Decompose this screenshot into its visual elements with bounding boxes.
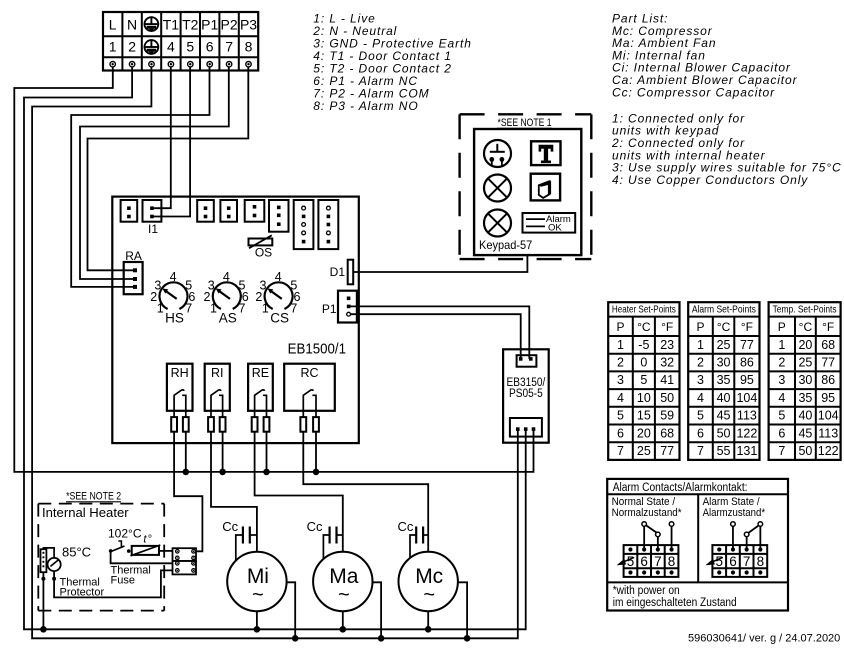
connector J7 (5-pin) (294, 200, 314, 249)
svg-text:P1: P1 (201, 17, 218, 33)
relay RH (heater) (167, 364, 193, 411)
svg-text:Cc: Cc (222, 519, 238, 534)
fuse/terminal RI-a (208, 411, 214, 432)
svg-text:77: 77 (660, 444, 674, 458)
svg-text:7: 7 (239, 302, 246, 316)
svg-text:86: 86 (821, 373, 835, 387)
part list text (612, 12, 798, 100)
svg-text:8: 8 (245, 39, 253, 55)
svg-text:im eingeschalteten Zustand: im eingeschalteten Zustand (613, 597, 737, 609)
controller box EB1500/1 (112, 197, 358, 444)
svg-text:77: 77 (821, 356, 835, 370)
wire Mi to N bus (256, 611, 258, 629)
svg-text:7: 7 (697, 444, 704, 458)
svg-text:-5: -5 (638, 338, 649, 352)
svg-text:P: P (616, 320, 624, 334)
svg-text:10: 10 (637, 391, 651, 405)
relay RC (compressor) (284, 364, 335, 411)
svg-text:40: 40 (798, 409, 812, 423)
svg-text:°F: °F (741, 320, 753, 334)
thermal protector sensor strip (41, 549, 47, 572)
connector P1 (3-pin to power supply) (338, 291, 357, 323)
label *SEE NOTE 2 (66, 491, 121, 503)
svg-text:8: P3 - Alarm NO: 8: P3 - Alarm NO (313, 99, 418, 113)
connector J8 (5-pin) (318, 200, 338, 249)
svg-text:5: 5 (640, 373, 647, 387)
motor Mc (compressor) (399, 552, 458, 611)
EB3150 input connector (517, 355, 537, 367)
keypad outer dashed box (460, 114, 592, 259)
connector J6 (3-pin) (269, 200, 289, 232)
relay RE (ambient fan) (248, 364, 273, 411)
svg-text:I1: I1 (148, 222, 158, 236)
svg-text:55: 55 (717, 444, 731, 458)
svg-text:7: 7 (654, 554, 662, 569)
svg-text:4: 4 (170, 270, 177, 284)
svg-text:P: P (778, 320, 786, 334)
wire Mc to N bus (427, 611, 429, 629)
svg-text:50: 50 (798, 444, 812, 458)
svg-text:1: 1 (778, 338, 785, 352)
svg-text:86: 86 (740, 356, 754, 370)
svg-text:23: 23 (660, 338, 674, 352)
connector I1 (2-pin door-contact input) (143, 200, 162, 222)
svg-text:OS: OS (255, 246, 272, 260)
svg-text:68: 68 (821, 338, 835, 352)
rotary dial AS (alarm set-point) (204, 270, 249, 326)
svg-text:41: 41 (660, 373, 674, 387)
wire P3 : terminal 8 to RA pin 1 (88, 67, 249, 270)
wire RI output to motor Mi (211, 432, 257, 552)
label *with power on / im eingeschalteten Zustand (613, 585, 737, 609)
svg-text:4: 4 (167, 39, 175, 55)
legend list terminals 1-8 (312, 12, 472, 114)
svg-text:2: 2 (778, 356, 785, 370)
svg-text:104: 104 (736, 391, 757, 405)
svg-text:2: 2 (617, 356, 624, 370)
svg-text:50: 50 (660, 391, 674, 405)
connector RA (3-pin remote alarm) (124, 262, 143, 294)
label Thermal Fuse (111, 565, 151, 587)
svg-text:0: 0 (640, 356, 647, 370)
connector J1 (2-pin) (121, 200, 138, 222)
svg-text:104: 104 (818, 409, 839, 423)
svg-text:P3: P3 (240, 17, 257, 33)
keypad Alarm/OK indicator (523, 213, 576, 233)
svg-text:Heater Set-Points: Heater Set-Points (612, 305, 676, 316)
svg-text:3: 3 (778, 373, 785, 387)
wire RE output to motor Ma (255, 432, 343, 552)
svg-text:20: 20 (637, 426, 651, 440)
wire RH return to L bus (185, 432, 187, 472)
svg-text:122: 122 (736, 426, 757, 440)
svg-text:L: L (109, 17, 117, 33)
svg-text:4: 4 (697, 391, 704, 405)
svg-text:113: 113 (818, 426, 838, 440)
svg-text:T2: T2 (182, 17, 199, 33)
alarm contacts terminal block alarm state (705, 522, 767, 577)
svg-text:5: 5 (778, 409, 785, 423)
fuse/terminal RI-b (220, 411, 226, 432)
table Heater Set-Points (608, 302, 679, 460)
thermal fuse element (131, 545, 161, 556)
svg-text:25: 25 (798, 356, 812, 370)
wire T1 : terminal 4 to I1 pin 1 (152, 67, 171, 208)
thermal fuse switch (109, 541, 131, 553)
keypad lamp 1 (484, 175, 511, 202)
svg-text:Normalzustand*: Normalzustand* (612, 507, 683, 519)
svg-text:RE: RE (252, 366, 269, 380)
svg-text:5: 5 (715, 554, 723, 569)
svg-text:N: N (127, 17, 137, 33)
svg-text:1: 1 (697, 338, 704, 352)
relay RI (internal fan) (205, 364, 230, 411)
svg-text:45: 45 (798, 426, 812, 440)
thermal protector switch 85C (43, 548, 60, 571)
table Temp. Set-Points (769, 302, 841, 460)
wire keypad to D1 (353, 255, 527, 272)
keypad temperature key T (531, 141, 560, 165)
svg-text:6: 6 (617, 426, 624, 440)
fuse/terminal RH-a (171, 411, 177, 432)
fuse/terminal RE-a (252, 411, 258, 432)
svg-text:°C: °C (799, 320, 813, 334)
svg-text:59: 59 (660, 409, 674, 423)
svg-text:131: 131 (736, 444, 757, 458)
wire P1 : terminal 6 to RA pin 3 (71, 67, 209, 287)
capacitor Cc (Mi) (222, 519, 257, 561)
capacitor Cc (Mc) (398, 519, 429, 558)
wire Mc frame to GND bus (458, 582, 467, 638)
label EB3150/PS05-5 (507, 377, 547, 400)
svg-text:Alarm Set-Points: Alarm Set-Points (692, 305, 756, 316)
svg-text:77: 77 (740, 338, 754, 352)
rotary dial CS (cooling set-point) (255, 270, 300, 326)
internal heater dashed box (38, 504, 164, 611)
terminal block X0 (L N GND T1 T2 P1 P2 P3 / 1-8) (103, 12, 258, 71)
svg-text:6: 6 (729, 554, 737, 569)
svg-text:EB1500/1: EB1500/1 (288, 341, 346, 358)
thermistor OS (249, 235, 273, 248)
fuse/terminal RC-a (300, 411, 306, 432)
alarm contacts box frame (607, 479, 788, 611)
svg-text:95: 95 (740, 373, 754, 387)
svg-text:*with power on: *with power on (613, 585, 680, 597)
svg-text:t°: t° (143, 534, 152, 546)
EB3150 output connector (510, 418, 542, 437)
wire Ma frame to GND bus (373, 582, 382, 638)
keypad door symbol (531, 174, 560, 201)
svg-text:P: P (696, 320, 704, 334)
svg-text:6: 6 (697, 426, 704, 440)
power supply box EB3150/PS05-5 (503, 349, 549, 442)
svg-text:*SEE NOTE 2: *SEE NOTE 2 (66, 491, 121, 503)
svg-text:30: 30 (798, 373, 812, 387)
svg-text:1: 1 (262, 302, 269, 316)
svg-text:HS: HS (165, 311, 184, 326)
svg-text:15: 15 (637, 409, 651, 423)
svg-text:40: 40 (717, 391, 731, 405)
svg-text:°F: °F (661, 320, 673, 334)
notes text 1-4 (611, 111, 842, 186)
svg-text:2: 2 (128, 39, 136, 55)
wire RH output to heater terminal block (174, 432, 202, 552)
svg-text:°C: °C (637, 320, 651, 334)
svg-text:3: 3 (617, 373, 624, 387)
label Alarm State / Alarmzustand* (703, 496, 766, 519)
svg-text:D1: D1 (330, 265, 346, 279)
junction dots thermal protector (41, 577, 56, 581)
svg-text:4: 4 (223, 270, 230, 284)
wire Mi frame to GND bus (287, 582, 296, 638)
wire RC output to motor Mc (303, 432, 428, 552)
svg-text:5: 5 (697, 409, 704, 423)
svg-text:RH: RH (171, 366, 189, 380)
svg-text:113: 113 (737, 409, 757, 423)
svg-text:5: 5 (627, 554, 635, 569)
wire RC return to L bus (315, 432, 317, 472)
svg-text:°C: °C (717, 320, 731, 334)
svg-text:1: 1 (109, 39, 117, 55)
svg-text:2: 2 (697, 356, 704, 370)
svg-text:Cc: Cc (398, 519, 414, 534)
fuse/terminal RE-b (264, 411, 270, 432)
svg-text:95: 95 (821, 391, 835, 405)
wire thermal fuse switch to heater block row3 (111, 552, 173, 564)
svg-text:102°C: 102°C (108, 527, 142, 541)
svg-text:~: ~ (252, 584, 264, 606)
label Normal State / Normalzustand* (612, 496, 683, 519)
svg-text:50: 50 (717, 426, 731, 440)
junction dot N bus / protector (40, 626, 47, 633)
svg-text:4: Use Copper Conductors Only: 4: Use Copper Conductors Only (612, 173, 808, 187)
svg-text:5: 5 (186, 39, 194, 55)
wire RI return to L bus (222, 432, 224, 472)
connector D1 (keypad/display) (348, 260, 354, 285)
svg-text:Alarm Contacts/Alarmkontakt:: Alarm Contacts/Alarmkontakt: (613, 482, 748, 494)
svg-text:1: 1 (617, 338, 624, 352)
svg-text:4: 4 (778, 391, 785, 405)
svg-text:~: ~ (423, 584, 435, 606)
svg-text:30: 30 (717, 356, 731, 370)
svg-text:7: 7 (185, 302, 192, 316)
svg-text:OK: OK (548, 222, 562, 233)
svg-text:68: 68 (660, 426, 674, 440)
svg-text:~: ~ (338, 584, 350, 606)
svg-text:7: 7 (778, 444, 785, 458)
svg-text:35: 35 (717, 373, 731, 387)
wire P2 : terminal 7 to RA pin 2 (80, 67, 229, 279)
svg-text:P2: P2 (221, 17, 238, 33)
svg-text:45: 45 (717, 409, 731, 423)
svg-text:RI: RI (211, 366, 224, 380)
fuse/terminal RH-b (183, 411, 189, 432)
svg-text:6: 6 (206, 39, 214, 55)
wire Ma to N bus (342, 611, 344, 629)
wire L : terminal 1 to L bus to EB3150 pin (14, 67, 533, 472)
svg-text:RC: RC (300, 366, 318, 380)
junction dots GND bus (292, 635, 471, 642)
svg-text:25: 25 (717, 338, 731, 352)
protective earth symbol (row 1) (145, 17, 159, 31)
svg-text:3: 3 (697, 373, 704, 387)
svg-text:7: 7 (743, 554, 751, 569)
svg-text:RA: RA (125, 249, 142, 263)
connector J5 (2-pin) (245, 200, 265, 222)
svg-text:32: 32 (660, 356, 674, 370)
svg-text:8: 8 (757, 554, 765, 569)
heater terminal block (2x4) (173, 548, 197, 574)
svg-text:Keypad-57: Keypad-57 (479, 238, 533, 252)
svg-text:Temp. Set-Points: Temp. Set-Points (773, 305, 837, 316)
svg-text:1: 1 (210, 302, 217, 316)
keypad power symbol (484, 140, 511, 167)
wire thermal protector switch to heater block (54, 570, 172, 597)
svg-text:Alarmzustand*: Alarmzustand* (703, 507, 766, 519)
svg-text:CS: CS (270, 311, 289, 326)
keypad lamp 2 (484, 210, 511, 237)
connector J3 (2-pin) (197, 200, 214, 222)
capacitor Cc (Ma) (307, 519, 343, 559)
svg-text:AS: AS (219, 311, 237, 326)
svg-text:596030641/ ver. g / 24.07.2020: 596030641/ ver. g / 24.07.2020 (688, 633, 840, 645)
junction dots N bus motors (254, 626, 432, 633)
svg-text:5: 5 (617, 409, 624, 423)
rotary dial HS (heater set-point) (150, 270, 195, 326)
svg-text:Fuse: Fuse (111, 575, 135, 587)
protective earth symbol (row 2, terminal 3) (145, 40, 159, 54)
svg-text:4: 4 (617, 391, 624, 405)
svg-text:7: 7 (225, 39, 233, 55)
svg-text:7: 7 (290, 302, 297, 316)
svg-text:Cc: Cc (307, 519, 323, 534)
svg-text:PS05-5: PS05-5 (509, 388, 543, 400)
wire T2 : terminal 5 to I1 pin 2 (152, 67, 190, 217)
svg-text:8: 8 (668, 554, 676, 569)
wire RE return to L bus (266, 432, 268, 472)
svg-text:6: 6 (778, 426, 785, 440)
keypad inner box Keypad-57 (474, 129, 581, 255)
table Alarm Set-Points (688, 302, 759, 460)
svg-text:*SEE NOTE 1: *SEE NOTE 1 (498, 117, 552, 129)
svg-text:85°C: 85°C (62, 545, 91, 560)
wire P1 pin3 to EB3150 (350, 314, 521, 359)
svg-text:1: 1 (157, 302, 164, 316)
svg-text:4: 4 (275, 270, 282, 284)
svg-text:25: 25 (637, 444, 651, 458)
svg-text:6: 6 (640, 554, 648, 569)
label *SEE NOTE 1 (497, 117, 552, 129)
svg-text:122: 122 (818, 444, 839, 458)
wire P1 pin2 to EB3150 (350, 306, 529, 359)
motor Ma (ambient fan) (313, 552, 372, 611)
svg-text:Internal Heater: Internal Heater (42, 505, 129, 520)
wire N : terminal 2 to N bus to EB3150 pin (24, 67, 526, 630)
motor Mi (internal fan) (227, 552, 286, 611)
alarm contacts terminal block normal state (617, 522, 679, 577)
svg-text:P1: P1 (322, 302, 337, 316)
fuse/terminal RC-b (313, 411, 319, 432)
wire thermal protector to N bus (42, 572, 44, 629)
label Thermal Protector (60, 577, 105, 599)
connector J4 (2-pin) (220, 200, 237, 222)
svg-text:Cc: Compressor Capacitor: Cc: Compressor Capacitor (612, 85, 775, 99)
svg-text:35: 35 (798, 391, 812, 405)
svg-text:7: 7 (617, 444, 624, 458)
wire GND : terminal 3 to GND bus to EB3150 pin (32, 67, 518, 639)
wire thermal fuse to heater block row1 (159, 550, 173, 552)
svg-text:20: 20 (798, 338, 812, 352)
svg-text:°F: °F (822, 320, 834, 334)
svg-text:T1: T1 (163, 17, 180, 33)
junction dots on L bus (183, 469, 320, 476)
